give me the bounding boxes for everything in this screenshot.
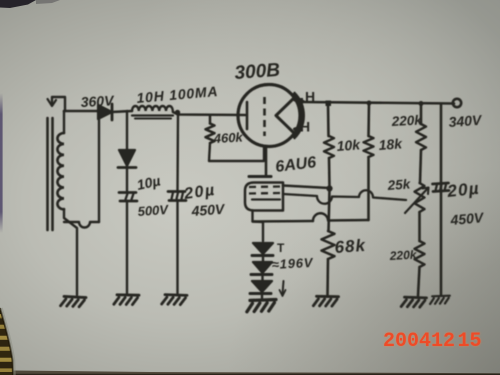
svg-text:18k: 18k <box>378 135 404 153</box>
wire secondary top lead <box>63 111 65 133</box>
svg-text:25k: 25k <box>386 176 412 193</box>
woven mat bottom-left corner <box>0 304 16 375</box>
capacitor C1 10u <box>119 193 137 295</box>
label 10H 100MA <box>136 83 219 106</box>
svg-text:≈196V: ≈196V <box>271 255 314 272</box>
resistor R2 10k <box>324 136 334 158</box>
resistor R5 220k <box>415 241 425 267</box>
svg-text:68k: 68k <box>334 236 367 257</box>
ground G4 <box>246 300 276 312</box>
300B heater pin top <box>295 98 303 104</box>
wire C3 drop <box>440 104 443 295</box>
ground G1 <box>61 296 86 307</box>
label 25k <box>386 176 412 193</box>
6AU6 grid2 dashed <box>249 192 281 195</box>
transformer T1 secondary winding <box>57 133 64 209</box>
label C2 20u <box>182 182 217 203</box>
capacitor C3 20u <box>433 183 450 192</box>
svg-text:300B: 300B <box>234 60 281 84</box>
svg-text:H: H <box>300 119 310 135</box>
node 220k junction <box>419 101 424 106</box>
diode D2 <box>118 111 136 192</box>
op-amp 300B envelope <box>238 85 303 147</box>
label C3 20u <box>445 179 480 201</box>
transformer T1 core <box>48 118 53 230</box>
wire cathode to zeners <box>253 222 264 242</box>
circuit ink <box>48 60 486 312</box>
label 220k top <box>390 112 423 129</box>
top-left dark patch <box>0 0 36 8</box>
ground G7 <box>430 296 450 304</box>
wire screen to pot <box>283 190 406 204</box>
date stamp text <box>383 330 482 353</box>
svg-text:220k: 220k <box>390 112 423 129</box>
wire 10k to node <box>328 158 331 187</box>
svg-text:340V: 340V <box>448 112 483 130</box>
ground G5 <box>313 296 338 306</box>
6AU6 top plate <box>249 175 271 178</box>
label 220k bottom <box>388 248 418 263</box>
wire 18k drop <box>367 103 370 136</box>
resistor R4 220k <box>416 124 426 150</box>
wire 220k to pot <box>420 150 421 183</box>
wire z1-z2 <box>262 256 264 262</box>
wire pot to 220k <box>418 212 421 241</box>
svg-text:450V: 450V <box>449 209 486 228</box>
label 300B <box>234 60 281 84</box>
6AU6 grid1 dashed <box>249 185 281 188</box>
wire 10k drop <box>327 104 330 136</box>
wire B+ rail left <box>64 110 98 113</box>
wire plate node down <box>329 189 330 231</box>
label H top <box>305 89 315 105</box>
diode Z3 <box>250 281 272 294</box>
label H bottom <box>300 119 310 135</box>
wire 300B cathode lead <box>265 147 268 176</box>
wire plate to node <box>283 186 329 189</box>
inductor L1 choke <box>132 106 173 119</box>
300B heater pin bottom <box>295 127 303 130</box>
resistor R1 460k <box>206 115 215 143</box>
date stamp <box>383 330 482 353</box>
svg-text:450V: 450V <box>190 201 226 219</box>
terminal 340V <box>453 99 461 107</box>
wire 18k to cathode line <box>367 157 370 220</box>
arrow down <box>280 281 286 296</box>
300B grid dashed <box>263 97 266 136</box>
ground G6 <box>401 297 426 307</box>
label 460k <box>212 129 243 146</box>
resistor R3 18k <box>364 136 374 157</box>
node choke output <box>175 110 180 115</box>
wire rail to choke <box>112 111 132 112</box>
wire R1 to cathode <box>209 143 264 161</box>
svg-text:220k: 220k <box>388 248 418 263</box>
ground G2 <box>114 295 139 305</box>
ground G3 <box>162 295 187 305</box>
wire rail choke to plate <box>173 112 245 115</box>
node heater junction <box>326 101 332 107</box>
wire AC input arrow <box>48 97 66 110</box>
label C3 450V <box>449 209 486 228</box>
label T <box>277 241 285 255</box>
diode Z1 <box>252 243 273 256</box>
svg-text:500V: 500V <box>137 202 170 219</box>
svg-text:460k: 460k <box>212 129 243 146</box>
bottom edge dark strip <box>13 371 500 375</box>
label 360V <box>80 92 115 110</box>
label 68k <box>334 236 367 257</box>
capacitor C2 20u <box>168 114 186 294</box>
label 6AU6 <box>274 154 317 176</box>
diode D1 <box>98 104 112 120</box>
svg-text:12: 12 <box>431 330 455 353</box>
wire 68k to ground <box>326 259 329 295</box>
wire cathode step <box>253 211 369 222</box>
svg-text:10k: 10k <box>336 136 362 154</box>
left edge purple sliver <box>0 93 3 233</box>
date stamp glow <box>383 330 482 353</box>
svg-text:2004: 2004 <box>383 330 431 353</box>
tube U2 6AU6 envelope <box>245 183 283 211</box>
svg-text:15: 15 <box>458 330 482 353</box>
node plate junction <box>326 185 332 191</box>
wire 220k drop <box>420 104 423 124</box>
300B plate bar <box>246 102 249 129</box>
6AU6 inner line <box>252 198 280 200</box>
diode Z2 <box>251 262 272 275</box>
svg-text:T: T <box>277 241 285 255</box>
wire secondary bottom lead <box>64 209 77 295</box>
svg-text:360V: 360V <box>80 92 115 110</box>
node rectifier input <box>64 112 99 227</box>
wire B+ rail right <box>303 102 454 104</box>
label C2 450V <box>190 201 226 219</box>
label C1 10u <box>135 172 161 193</box>
wire z2-z3 <box>261 275 263 281</box>
label 18k <box>378 135 404 153</box>
label 196V <box>271 255 314 272</box>
node 18k junction <box>367 101 372 106</box>
label 10k <box>336 136 362 154</box>
label 340V <box>448 112 483 130</box>
resistor R6 68k <box>322 231 335 259</box>
wire 220k to ground <box>418 267 420 296</box>
label C1 500V <box>137 202 170 219</box>
svg-text:20µ: 20µ <box>445 179 480 201</box>
300B filament <box>276 98 294 133</box>
wire z3 to ground <box>261 294 263 298</box>
potentiometer VR1 25k <box>405 183 429 213</box>
